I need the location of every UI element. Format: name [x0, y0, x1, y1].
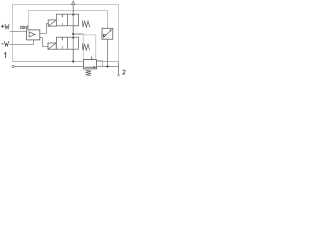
solenoid Y1 (proportional) — [48, 20, 56, 26]
port 1 connection — [12, 65, 14, 67]
solenoid Y2 (proportional) — [48, 43, 56, 49]
valve V2 (2/2 fill valve) — [56, 37, 78, 49]
node junction sensor tap — [106, 65, 108, 67]
exhaust arrow port 3 — [72, 1, 75, 4]
wire (sensor feedback to amplifier) — [29, 11, 108, 30]
pressure sensor B1 — [102, 28, 113, 39]
wire output line 2 — [97, 62, 119, 74]
node junction supply tap — [72, 60, 74, 62]
valve V1 (2/2 vent valve) — [56, 14, 78, 26]
port 2 connection — [118, 74, 120, 76]
spring for V1 — [82, 20, 89, 27]
wire sensor to output line — [107, 39, 109, 66]
op-amp U1 (proportional amplifier X0N1) — [27, 30, 40, 40]
enclosure (outer dashed frame) — [13, 5, 119, 62]
wire amplifier to solenoid Y2 — [40, 38, 48, 47]
spring for V2 — [82, 43, 89, 50]
spring below regulator — [86, 70, 92, 76]
node +W label — [1, 25, 4, 28]
pressure regulator main stage — [83, 60, 96, 69]
wire V1 to node — [72, 26, 74, 37]
wire pilot branch — [73, 33, 83, 35]
node 2 label — [123, 70, 125, 74]
node junction pilot — [72, 33, 74, 35]
label X0N1 — [20, 26, 22, 29]
pilot chamber box — [83, 35, 95, 60]
wire supply line 1 — [14, 66, 83, 68]
node 1 label — [4, 53, 5, 59]
wire -W input — [10, 40, 34, 45]
wire +W input — [10, 31, 27, 33]
wire amplifier to solenoid Y1 — [40, 24, 48, 34]
node -W label — [1, 43, 3, 45]
wire V2 to supply — [72, 49, 74, 61]
pilot appendage — [97, 61, 103, 67]
